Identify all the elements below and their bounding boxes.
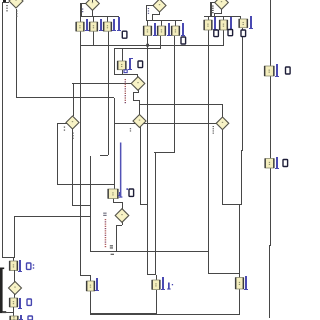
wire jog y=202 <box>113 202 122 203</box>
capacitor C5 right of R1 <box>276 64 278 77</box>
connector bracket left edge <box>0 268 3 312</box>
wire x=146.5 down to cluster2 bus <box>146 6 147 21</box>
wire x=122 bottom pin of component M1 <box>122 70 123 75</box>
text remnant dots near Q8 <box>213 126 214 127</box>
wire Q3 bottom jog h <box>152 14 160 15</box>
capacitor C3a (cluster3) <box>214 17 216 30</box>
capacitor C4 right of M1 <box>129 58 131 70</box>
component box B2b (cluster2) <box>158 26 166 36</box>
wire jog at y=150 <box>241 150 243 151</box>
wire Q3 bottom jog v <box>159 12 160 15</box>
wire stub bus to box B3b <box>223 16 224 20</box>
wire x=222.5 diamond Q8 bottom down <box>222 130 223 205</box>
wire horizontal y=216 <box>14 216 91 217</box>
label glyph 0 blue right of B4a <box>27 263 31 269</box>
label glyph 0 under C3a <box>214 30 219 37</box>
wire bus y=251.5 <box>90 251 209 252</box>
capacitor C12 right of B7 <box>245 276 247 290</box>
wire horizontal y=74.5 <box>114 74 138 75</box>
wire horizontal y=275.5 <box>80 275 91 276</box>
wire x=122 top pin of component M1 <box>122 48 123 61</box>
wire right rail x=270.5 <box>270 0 271 245</box>
wire Q4 bottom jog v <box>221 9 222 13</box>
wire bottom bus y=314.7 right segment <box>156 314 240 315</box>
wire x=156 into box B6 top <box>156 275 157 281</box>
component box B4c (bottom-left, cut) <box>10 316 18 320</box>
wire x=90.5 down to bus y251 <box>90 156 91 252</box>
capacitor C4 top hook <box>129 58 133 59</box>
label glyph 0 right of R2 <box>283 160 288 167</box>
wire U-bottom y=257 bottom-left <box>2 257 15 258</box>
wire x=160.5 cluster2 B2 drop <box>160 36 161 45</box>
wire x=137.5 into diamond Q5 top <box>137 74 138 78</box>
wire x=114.5 y48-75 <box>114 48 115 75</box>
component box B3b (cluster3) <box>220 20 228 30</box>
wire x=90.5 box B5 bottom to bus <box>90 291 91 315</box>
capacitor lead blue line x=120.5 <box>120 143 122 198</box>
capacitor tick right of M2 <box>119 192 120 196</box>
label glyph 0 blue right of B4b <box>27 299 31 305</box>
text remnant dots near Q7 <box>64 127 65 128</box>
wire long x=80 from cluster1 down <box>80 31 81 275</box>
blue dot near M2 glyph <box>126 188 128 190</box>
component box B2c (cluster2) <box>172 26 180 36</box>
component box B4b (bottom-left) <box>10 298 18 307</box>
wire horizontal y=152.5 <box>154 152 175 153</box>
label glyph 0 right of R1 <box>286 67 291 74</box>
diamond source Q3 (cluster2) <box>153 0 166 12</box>
capacitor C1d trailing (cluster1) <box>118 17 120 31</box>
wire x=155 down to U-bottom <box>155 152 156 275</box>
capacitor C2a (cluster2) <box>154 23 156 36</box>
capacitor C2b (cluster2) <box>168 23 170 36</box>
label glyph 0 under C3b <box>228 30 233 36</box>
wire cluster3 bus y=16 <box>204 16 241 17</box>
wire jog under Q5 part2 <box>133 92 139 93</box>
wire box M2 bottom pin <box>113 198 114 202</box>
capacitor C1b (cluster1) <box>100 19 102 31</box>
wire stub above Q2 <box>92 0 93 2</box>
wire box B4a to diamond Q10 <box>14 270 15 282</box>
wire x=81 down to cluster1 bus <box>80 4 82 16</box>
wire U y257 to box B4a top <box>13 257 14 261</box>
wire x=72.5 diamond Q7 bottom down <box>72 129 73 206</box>
wire x=16 from diamond Q1 down <box>16 9 17 97</box>
label glyph 0 under C1d <box>122 31 127 38</box>
component box B4a (bottom-left) <box>10 261 18 271</box>
wire x=222.5 into diamond Q8 top <box>222 104 223 118</box>
wire jog y=155.5 from x108.5 to x90.5 - horizontal <box>100 155 108 156</box>
label glyph 0 blue right of B4c <box>28 316 32 320</box>
capacitor C1a (cluster1) <box>86 19 88 31</box>
wire horizontal y=97.5 <box>16 97 114 98</box>
label glyph 0 under C2c <box>181 37 186 44</box>
diamond source Q6 (below Q5) <box>133 115 146 128</box>
wire jog right rail y=245 <box>269 245 271 246</box>
text remnant marks near Q9 <box>103 213 106 214</box>
text remnant tick marks near Q4 <box>212 6 214 7</box>
wire Q4 jog down to bus <box>214 13 215 16</box>
wire jog under Q5 part1 <box>138 90 139 93</box>
wire diamond Q9 top pin <box>122 202 123 210</box>
wire left rail x=2.5 (node N1 down left side) <box>2 2 3 257</box>
blue glyph above M1 <box>124 70 127 73</box>
diamond source Q1 (top-left) <box>9 0 23 8</box>
label glyph 0 right of M2 <box>129 189 134 196</box>
wire long x=208.5 cluster3 B1 drop <box>208 30 209 274</box>
component box B3a (cluster3) <box>204 20 212 30</box>
wire horizontal y=312.5 to bracket <box>2 312 14 313</box>
wire stub bus to box B1a <box>80 16 81 22</box>
dashes below Q7 <box>72 133 74 134</box>
wire x=174.5 cluster2 B3 drop <box>174 36 175 153</box>
wire stub bus to box B2c <box>175 20 176 26</box>
wire box B4b down <box>13 307 14 316</box>
wire x=73 down to diamond Q7 top <box>73 84 74 116</box>
wire x=239.5 down to component B7 <box>239 204 240 278</box>
diamond source Q10 (bottom-left) <box>9 282 22 295</box>
text remnant red column in white box <box>105 219 107 220</box>
wire stub top-left to diamond Q1 <box>2 2 9 3</box>
text remnant dots near Q2 <box>82 9 83 10</box>
capacitor C9 right of B4c <box>20 315 22 320</box>
capacitor C6 right of R2 <box>276 157 278 169</box>
wire x=114 from y97.5 down to box M2 <box>114 98 115 190</box>
wire x=223.5 cluster3 B2 drop to y45 <box>223 30 224 45</box>
wire x=116.5 white-box right edge <box>116 225 117 251</box>
wire long x=147.5 cluster2 B1 drop <box>147 36 148 275</box>
capacitor C3b (cluster3) <box>230 17 232 30</box>
wire x=139.5 into diamond Q6 <box>139 100 140 116</box>
wire step x=160 y45-48 <box>160 45 161 49</box>
component box B7 (right-bottom inline) <box>236 278 244 290</box>
wire x=156 box B6 bottom to bus <box>156 290 157 315</box>
wire x=14.5 down to U y257 <box>14 216 15 258</box>
wire Q3 jog down to bus <box>152 14 153 21</box>
component box M2 (mid-low) <box>108 189 118 199</box>
wire horizontal y=273.5 <box>208 273 240 274</box>
wire x=57.5 from diamond Q7 left-stub down <box>57 123 58 185</box>
text remnant dots near Q1 <box>6 5 7 6</box>
junction dot y45 x147 <box>146 44 149 47</box>
text remnant red column near Q5 <box>125 79 126 80</box>
component box R1 (right rail upper) <box>265 66 275 76</box>
component box B1a (cluster1) <box>76 22 84 31</box>
wire x=242.7 cluster3 B3 drop <box>242 28 243 150</box>
component box B2a (cluster2) <box>144 26 152 36</box>
wire diamond Q9 bottom pin <box>122 222 123 225</box>
component box B1c (cluster1) <box>104 22 112 31</box>
capacitor C11 right of B6 <box>162 277 164 290</box>
diamond source Q9 (mid-low) <box>115 209 129 223</box>
wire horizontal y=205.5 <box>72 205 91 206</box>
diamond source Q4 (cluster3) <box>215 0 229 9</box>
wire U-bottom y=274.5 <box>147 274 156 275</box>
wire x=241.2 down to y204.5 <box>241 150 242 205</box>
diamond source Q7 (left) <box>66 116 79 129</box>
wire x=211 down to cluster3 bus <box>210 2 212 16</box>
wire long horizontal y=45.2 <box>80 45 224 46</box>
component box R2 (right rail lower) <box>265 159 274 169</box>
wire right rail x=269 lower <box>269 245 270 318</box>
wire horizontal y=184.5 <box>57 184 115 185</box>
wire x=108.5 cluster1 B3 drop <box>108 31 109 155</box>
wire stub into diamond Q7 left <box>57 123 67 124</box>
wire x=239.5 component B7 to bottom bus <box>239 289 240 315</box>
wire Q2 bottom to bus <box>92 10 93 16</box>
wire cluster2 bus y=20.5 <box>146 20 182 21</box>
wire Q4 left corner stub <box>210 2 215 3</box>
wire jog y=225 under diamond Q9 <box>116 225 122 226</box>
wire jog under Q5 part3 <box>133 92 134 100</box>
component box B1b (cluster1) <box>90 22 98 31</box>
component box M1 (mid, x270 area feed) <box>118 61 127 70</box>
component box B5 (bottom-mid-left) <box>87 281 95 291</box>
wire corner bus down to box B3c <box>240 16 241 19</box>
diamond source Q2 (cluster1) <box>86 0 100 10</box>
wire long horizontal y=123.3 <box>114 123 217 124</box>
wire stub bus to box B1b <box>93 16 94 22</box>
wire stub bus to box B2a <box>147 20 148 26</box>
wire stub bus to box B2b <box>161 20 162 26</box>
capacitor C7 right of B4a <box>19 260 21 272</box>
wire Q4 bottom jog h <box>214 13 222 14</box>
text remnant dots near Q3 <box>148 8 149 9</box>
wire Q2 left corner to x81 <box>80 3 86 4</box>
capacitor C8 right of B4b <box>19 298 21 309</box>
capacitor C1c (cluster1) <box>113 19 115 31</box>
wire long horizontal y=104 <box>139 104 223 105</box>
wire stub bus to box B1c <box>107 16 108 22</box>
diamond source Q8 (right) <box>216 117 229 130</box>
wire horizontal y=204.5 right <box>222 204 242 205</box>
wire horizontal y=83.5 to diamond Q5 left <box>72 83 132 84</box>
wire Q3 left corner to x146.5 <box>146 5 154 6</box>
wire x=90.5 into box B5 top <box>90 276 91 282</box>
wire x=140 diamond Q6 bottom down <box>140 126 141 205</box>
diamond source Q5 (mid) <box>131 77 145 91</box>
wire horizontal y=48.2 <box>114 48 161 49</box>
label glyph 0 under B3c <box>241 30 246 37</box>
capacitor C3c (cluster3) <box>250 16 252 29</box>
wire Q10 bottom to box B4b <box>14 294 15 298</box>
wire jog under Q5 part4 <box>133 100 140 101</box>
wire horizontal y=204.5 left <box>140 204 148 205</box>
component box B6 (under U-bottom) <box>152 280 160 290</box>
capacitor C10 right of B5 <box>96 278 98 291</box>
label glyph 0 right of M1 <box>138 61 143 68</box>
dots below Q6 <box>130 128 131 129</box>
component box B3c (cluster3) <box>239 19 248 28</box>
label glyph blue l near B6 <box>168 283 170 290</box>
wire cluster1 bus y=16 <box>81 16 119 17</box>
wire x=93.5 cluster1 B2 drop <box>93 31 94 46</box>
wire bottom bus y=314 left segment <box>90 313 156 315</box>
wire stub bus to box B3a <box>208 16 209 20</box>
capacitor C2c (cluster2) <box>182 23 184 36</box>
wire end mark top-left <box>3 0 6 2</box>
